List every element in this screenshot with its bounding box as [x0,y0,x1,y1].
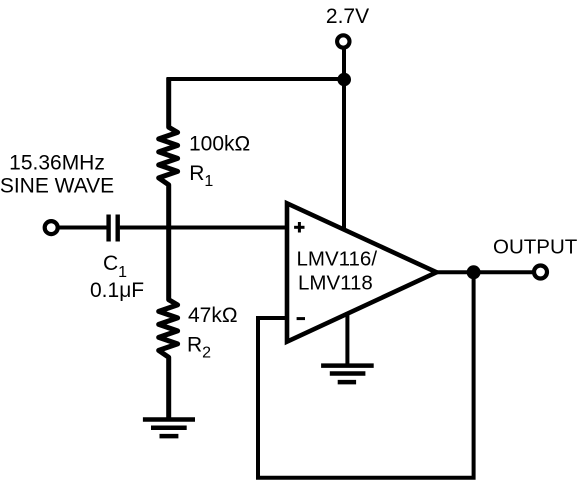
op-amp U1 LMV116/LMV118 [287,203,437,341]
svg-text:0.1μF: 0.1μF [90,279,144,302]
junction supply node [337,73,351,87]
svg-text:LMV118: LMV118 [298,272,373,295]
resistor R1 [159,78,178,228]
wire feedback loop [258,272,474,478]
capacitor C1 [106,215,110,242]
pin + (non-inverting) [294,222,304,233]
resistor R2 [159,228,178,420]
junction output node [467,265,481,279]
wire supply vertical [342,48,346,231]
terminal 2.7V supply [337,35,349,47]
svg-text:OUTPUT: OUTPUT [493,236,578,259]
svg-text:100kΩ: 100kΩ [189,133,250,156]
terminal input [45,221,58,234]
svg-text:LMV116/: LMV116/ [297,248,378,271]
ground (below R2) [143,420,195,437]
wire op-amp ground pin [345,312,349,366]
pin - (inverting) [297,317,305,320]
wire output [434,270,536,274]
wire capacitor to op-amp + input [120,226,289,230]
ground (op-amp) [321,366,374,383]
svg-text:47kΩ: 47kΩ [188,304,238,327]
wire input to capacitor [57,226,107,230]
svg-text:15.36MHz: 15.36MHz [9,151,105,174]
terminal output [534,266,547,279]
svg-text:2.7V: 2.7V [326,5,369,28]
wire top horizontal to R1 [167,77,345,81]
svg-text:SINE WAVE: SINE WAVE [0,174,114,197]
